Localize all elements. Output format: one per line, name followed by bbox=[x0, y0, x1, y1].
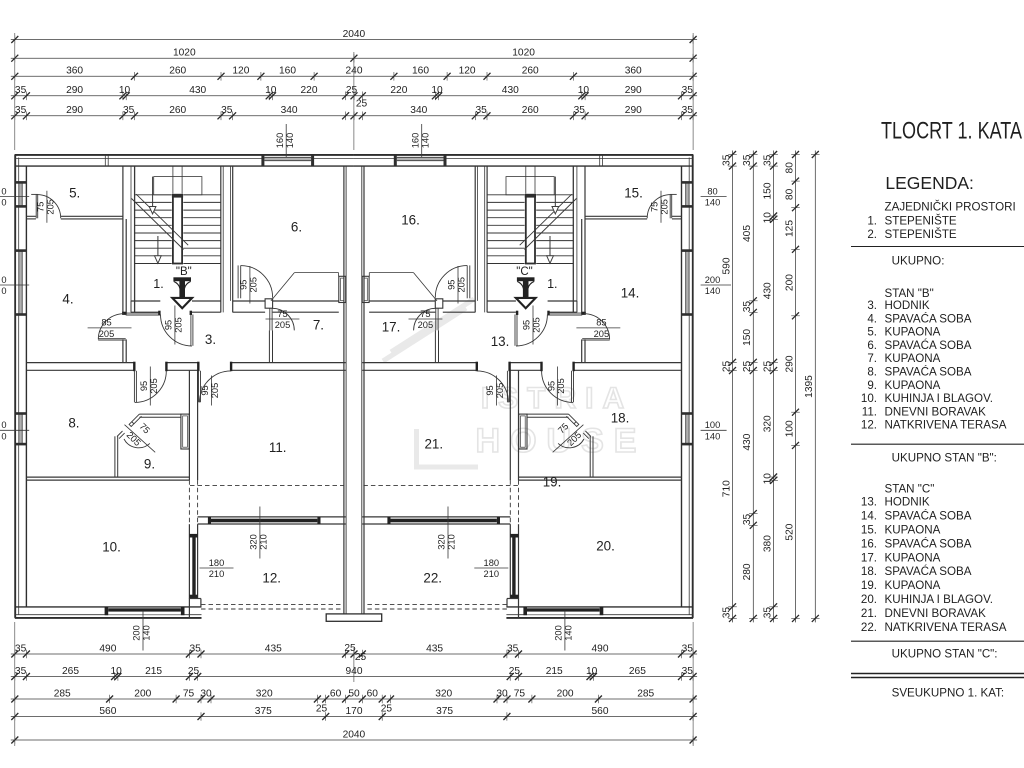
svg-text:KUPAONA: KUPAONA bbox=[885, 326, 941, 339]
svg-text:0: 0 bbox=[1, 432, 6, 442]
svg-text:35: 35 bbox=[742, 154, 753, 166]
door stair B (95/205) bbox=[158, 311, 160, 315]
svg-text:25: 25 bbox=[762, 361, 773, 373]
svg-text:30: 30 bbox=[496, 688, 508, 699]
svg-text:DNEVNI BORAVAK: DNEVNI BORAVAK bbox=[885, 405, 987, 418]
svg-text:35: 35 bbox=[682, 105, 694, 116]
door jambs corridor bbox=[133, 362, 135, 372]
svg-text:50: 50 bbox=[348, 688, 360, 699]
svg-text:2.: 2. bbox=[867, 228, 877, 241]
door D5 (75/205) room 5 bbox=[35, 194, 37, 218]
svg-text:320: 320 bbox=[435, 688, 452, 699]
svg-text:0: 0 bbox=[1, 286, 6, 296]
svg-text:25: 25 bbox=[721, 361, 732, 373]
svg-text:35: 35 bbox=[15, 643, 27, 654]
svg-text:35: 35 bbox=[721, 154, 732, 166]
svg-text:35: 35 bbox=[15, 666, 27, 677]
svg-text:35: 35 bbox=[476, 105, 488, 116]
svg-text:22.: 22. bbox=[423, 571, 442, 586]
svg-text:SPAVAĆA SOBA: SPAVAĆA SOBA bbox=[885, 565, 972, 578]
door D6 (95/205) room 6 bbox=[237, 265, 239, 298]
wall rooms6-7 south (Y440-475) bbox=[233, 300, 265, 302]
svg-text:140: 140 bbox=[420, 133, 430, 149]
svg-text:35: 35 bbox=[574, 105, 586, 116]
wall corridor south (Y625-650) bbox=[26, 362, 134, 364]
wall rooms8-9 south (Y970-980) bbox=[26, 476, 189, 478]
label window 200/140 right wall bbox=[701, 284, 731, 286]
svg-text:35: 35 bbox=[15, 85, 27, 96]
wall stairwell south (Y440-475) bbox=[131, 300, 160, 302]
label door stairC 95/205 bbox=[532, 306, 534, 345]
svg-text:10: 10 bbox=[762, 473, 773, 485]
svg-text:590: 590 bbox=[721, 257, 732, 274]
stair entry arrow B bbox=[173, 277, 191, 281]
label window 80/140 right wall bbox=[701, 196, 727, 198]
legend separator 3 bbox=[851, 640, 1024, 642]
svg-text:140: 140 bbox=[142, 625, 152, 641]
svg-text:210: 210 bbox=[209, 569, 225, 579]
label fragment left wall W3 bbox=[0, 429, 29, 431]
door D11 (95/205) room 11 bbox=[198, 371, 200, 403]
window 200/140 left W2 bbox=[16, 252, 25, 314]
label door D6 95/205 bbox=[249, 266, 251, 304]
svg-text:380: 380 bbox=[762, 535, 773, 552]
svg-text:220: 220 bbox=[390, 85, 407, 96]
svg-text:12.: 12. bbox=[262, 571, 281, 586]
svg-text:210: 210 bbox=[447, 534, 457, 550]
label door D17 75/205 bbox=[409, 318, 443, 320]
legend separator 2 bbox=[851, 443, 1024, 445]
svg-text:490: 490 bbox=[592, 643, 609, 654]
svg-text:KUPAONA: KUPAONA bbox=[885, 352, 941, 365]
svg-text:20.: 20. bbox=[861, 593, 877, 606]
svg-text:4.: 4. bbox=[62, 292, 73, 307]
label door D16 95/205 bbox=[457, 266, 459, 304]
svg-text:280: 280 bbox=[742, 563, 753, 580]
label fragment left wall W1 bbox=[0, 196, 29, 198]
svg-text:290: 290 bbox=[66, 105, 83, 116]
svg-text:220: 220 bbox=[301, 85, 318, 96]
svg-text:SPAVAĆA SOBA: SPAVAĆA SOBA bbox=[885, 510, 972, 523]
svg-text:35: 35 bbox=[221, 105, 233, 116]
niche diagonal room 6 bbox=[271, 273, 295, 301]
svg-text:260: 260 bbox=[169, 66, 186, 77]
svg-text:19.: 19. bbox=[861, 579, 877, 592]
svg-text:375: 375 bbox=[436, 706, 453, 717]
svg-text:SPAVAĆA SOBA: SPAVAĆA SOBA bbox=[885, 339, 972, 352]
dim chain T4 bbox=[11, 95, 697, 97]
svg-text:205: 205 bbox=[275, 320, 291, 330]
svg-text:10: 10 bbox=[762, 212, 773, 224]
dim chain T1 2040 bbox=[11, 39, 697, 41]
svg-text:10: 10 bbox=[578, 85, 590, 96]
dim chain B1 bbox=[11, 653, 697, 655]
label fragment left wall W2 bbox=[0, 284, 29, 286]
svg-text:35: 35 bbox=[682, 666, 694, 677]
svg-text:20.: 20. bbox=[596, 539, 615, 554]
label window 200/140 bottom-left bbox=[142, 611, 144, 651]
svg-text:160: 160 bbox=[410, 133, 420, 149]
svg-text:140: 140 bbox=[564, 625, 574, 641]
svg-text:NATKRIVENA TERASA: NATKRIVENA TERASA bbox=[885, 419, 1007, 432]
wire outer left wall bbox=[14, 155, 16, 618]
label door D9 75/205 rotated bbox=[125, 425, 156, 453]
svg-text:205: 205 bbox=[532, 317, 542, 333]
svg-text:75: 75 bbox=[650, 202, 660, 212]
svg-text:320: 320 bbox=[762, 415, 773, 432]
svg-text:0: 0 bbox=[1, 198, 6, 208]
wall room11 south (Y1080-1115) bbox=[198, 516, 346, 518]
svg-text:UKUPNO:: UKUPNO: bbox=[892, 255, 945, 268]
svg-text:180: 180 bbox=[209, 558, 225, 568]
svg-text:14.: 14. bbox=[621, 286, 640, 301]
svg-text:35: 35 bbox=[742, 514, 753, 526]
canopy dashed horizontal bbox=[190, 485, 346, 487]
dim chain T3 bbox=[11, 75, 697, 77]
svg-text:0: 0 bbox=[1, 275, 6, 285]
top wall tick bbox=[104, 155, 106, 166]
svg-text:KUHINJA I BLAGOV.: KUHINJA I BLAGOV. bbox=[885, 392, 993, 405]
svg-text:16.: 16. bbox=[861, 537, 877, 550]
svg-text:215: 215 bbox=[145, 666, 162, 677]
svg-text:5.: 5. bbox=[69, 186, 80, 201]
svg-text:1.: 1. bbox=[547, 277, 557, 291]
svg-text:205: 205 bbox=[99, 329, 115, 339]
svg-text:125: 125 bbox=[784, 220, 795, 237]
svg-text:340: 340 bbox=[410, 105, 427, 116]
svg-text:KUHINJA I BLAGOV.: KUHINJA I BLAGOV. bbox=[885, 593, 993, 606]
svg-text:140: 140 bbox=[705, 286, 721, 296]
label door D8 95/205 bbox=[149, 367, 151, 406]
shaft room 6 bbox=[339, 276, 346, 302]
svg-text:7.: 7. bbox=[867, 352, 877, 365]
dim chain T2 1020/1020 bbox=[11, 57, 697, 59]
terrace bottom dashed bbox=[201, 604, 344, 606]
dim chain R5 1395 bbox=[814, 151, 816, 623]
svg-text:200: 200 bbox=[134, 688, 151, 699]
svg-text:120: 120 bbox=[232, 66, 249, 77]
svg-text:35: 35 bbox=[742, 301, 753, 313]
stairs treads bbox=[135, 194, 221, 196]
svg-text:85: 85 bbox=[596, 318, 606, 328]
svg-text:7.: 7. bbox=[313, 318, 324, 333]
svg-text:ZAJEDNIČKI PROSTORI: ZAJEDNIČKI PROSTORI bbox=[885, 201, 1016, 214]
label window 160/140 top-right bbox=[421, 124, 423, 157]
label door D5 75/205 bbox=[46, 191, 48, 223]
svg-text:1395: 1395 bbox=[804, 375, 815, 398]
stairs break line bbox=[132, 199, 184, 250]
svg-text:10: 10 bbox=[586, 666, 598, 677]
svg-text:430: 430 bbox=[189, 85, 206, 96]
svg-text:60: 60 bbox=[330, 688, 342, 699]
svg-text:205: 205 bbox=[418, 320, 434, 330]
svg-text:75: 75 bbox=[514, 688, 526, 699]
svg-text:SPAVAĆA SOBA: SPAVAĆA SOBA bbox=[885, 366, 972, 379]
svg-text:205: 205 bbox=[457, 277, 467, 293]
svg-text:260: 260 bbox=[522, 105, 539, 116]
svg-text:35: 35 bbox=[682, 85, 694, 96]
svg-text:95: 95 bbox=[485, 385, 495, 395]
label door D4 85/205 bbox=[88, 327, 132, 329]
dim chain R4 bbox=[795, 151, 797, 623]
witness lines bbox=[14, 33, 16, 150]
dim chain R1 bbox=[732, 151, 734, 623]
stairs flight divider bbox=[172, 166, 174, 195]
svg-text:160: 160 bbox=[275, 133, 285, 149]
svg-text:95: 95 bbox=[239, 280, 249, 290]
svg-text:21.: 21. bbox=[861, 607, 877, 620]
svg-text:11.: 11. bbox=[862, 405, 877, 418]
label door D18 95/205 bbox=[557, 367, 559, 406]
svg-text:1020: 1020 bbox=[512, 48, 535, 59]
svg-text:430: 430 bbox=[742, 433, 753, 450]
svg-text:435: 435 bbox=[265, 643, 282, 654]
wire bottom wall (left section) bbox=[15, 617, 202, 619]
svg-text:100: 100 bbox=[784, 420, 795, 437]
svg-text:200: 200 bbox=[705, 275, 721, 285]
svg-text:TLOCRT 1. KATA: TLOCRT 1. KATA bbox=[881, 118, 1022, 145]
footing party wall bbox=[326, 614, 382, 621]
svg-text:"B": "B" bbox=[176, 266, 192, 278]
label window 180/210 right bbox=[474, 567, 508, 569]
window 100/140 left W3 bbox=[16, 414, 25, 443]
party wall center bbox=[343, 166, 345, 614]
svg-text:95: 95 bbox=[447, 280, 457, 290]
wall room9 north bbox=[139, 413, 180, 415]
svg-text:UKUPNO STAN "B":: UKUPNO STAN "B": bbox=[892, 452, 997, 465]
svg-text:15.: 15. bbox=[861, 524, 877, 537]
svg-text:290: 290 bbox=[625, 85, 642, 96]
svg-text:10: 10 bbox=[111, 666, 123, 677]
svg-text:1.: 1. bbox=[867, 215, 877, 228]
label door D19 75/205 rotated bbox=[553, 425, 584, 453]
svg-text:35: 35 bbox=[682, 643, 694, 654]
svg-text:2040: 2040 bbox=[343, 29, 366, 40]
door D8 (95/205) room 8 bbox=[133, 371, 135, 403]
svg-text:160: 160 bbox=[279, 66, 296, 77]
svg-text:320: 320 bbox=[437, 534, 447, 550]
svg-text:STEPENIŠTE: STEPENIŠTE bbox=[885, 215, 957, 228]
svg-text:5.: 5. bbox=[867, 326, 877, 339]
canopy dashed verticals bbox=[188, 480, 190, 524]
dim chain B3 bbox=[11, 698, 697, 700]
svg-text:60: 60 bbox=[367, 688, 379, 699]
door D7 (75/205) room 7 bbox=[269, 308, 271, 330]
svg-text:200: 200 bbox=[554, 625, 564, 641]
window 180/210 bbox=[192, 537, 195, 596]
svg-text:SVEUKUPNO 1. KAT:: SVEUKUPNO 1. KAT: bbox=[892, 687, 1005, 700]
wall rooms5-4 east (X325-335) bbox=[122, 166, 124, 314]
svg-text:265: 265 bbox=[62, 666, 79, 677]
svg-text:150: 150 bbox=[762, 182, 773, 199]
svg-text:KUPAONA: KUPAONA bbox=[885, 379, 941, 392]
watermark house logo bbox=[383, 299, 478, 469]
svg-text:2040: 2040 bbox=[343, 729, 366, 740]
svg-text:14.: 14. bbox=[861, 510, 877, 523]
svg-text:290: 290 bbox=[784, 355, 795, 372]
wall rooms8-11 divider (X525-550) bbox=[188, 371, 190, 481]
dim chain B5 2040 bbox=[11, 739, 697, 741]
niche line room 6 bbox=[294, 272, 338, 274]
svg-text:560: 560 bbox=[592, 706, 609, 717]
svg-text:HODNIK: HODNIK bbox=[885, 496, 930, 509]
svg-text:140: 140 bbox=[705, 198, 721, 208]
label window 200/140 bottom-right bbox=[564, 611, 566, 651]
svg-text:19.: 19. bbox=[543, 475, 562, 490]
svg-text:150: 150 bbox=[742, 329, 753, 346]
svg-text:360: 360 bbox=[66, 66, 83, 77]
shaft rooms 8-9 bbox=[181, 414, 189, 449]
svg-text:35: 35 bbox=[15, 105, 27, 116]
svg-text:215: 215 bbox=[546, 666, 563, 677]
svg-text:1.: 1. bbox=[153, 277, 163, 291]
svg-text:3.: 3. bbox=[867, 299, 877, 312]
svg-text:SPAVAĆA SOBA: SPAVAĆA SOBA bbox=[885, 312, 972, 325]
svg-text:25: 25 bbox=[346, 85, 358, 96]
svg-text:8.: 8. bbox=[68, 416, 79, 431]
svg-text:200: 200 bbox=[784, 274, 795, 291]
svg-text:35: 35 bbox=[190, 643, 202, 654]
svg-text:405: 405 bbox=[742, 225, 753, 242]
label window 320/210 right bbox=[447, 507, 449, 559]
svg-text:160: 160 bbox=[412, 66, 429, 77]
dim chain R2 bbox=[752, 151, 754, 623]
svg-text:11.: 11. bbox=[269, 440, 287, 455]
door D9 (75/205) arc bbox=[124, 439, 150, 448]
dim chain B2 bbox=[11, 676, 697, 678]
svg-text:210: 210 bbox=[484, 569, 500, 579]
svg-text:560: 560 bbox=[99, 706, 116, 717]
svg-text:80: 80 bbox=[784, 162, 795, 174]
label door D21 95/205 bbox=[496, 376, 498, 406]
wall corridor north-west piece bbox=[126, 312, 161, 314]
svg-text:205: 205 bbox=[249, 277, 259, 293]
svg-text:18.: 18. bbox=[861, 565, 877, 578]
svg-text:30: 30 bbox=[200, 688, 212, 699]
label door D11 95/205 bbox=[210, 376, 212, 406]
svg-text:205: 205 bbox=[46, 199, 56, 215]
label window 320/210 left bbox=[259, 507, 261, 559]
svg-text:285: 285 bbox=[637, 688, 654, 699]
svg-text:KUPAONA: KUPAONA bbox=[885, 551, 941, 564]
svg-text:KUPAONA: KUPAONA bbox=[885, 579, 941, 592]
svg-text:95: 95 bbox=[546, 381, 556, 391]
svg-text:435: 435 bbox=[426, 643, 443, 654]
svg-text:205: 205 bbox=[210, 383, 220, 399]
svg-text:10: 10 bbox=[265, 85, 277, 96]
svg-text:35: 35 bbox=[762, 607, 773, 619]
svg-text:290: 290 bbox=[625, 105, 642, 116]
svg-text:265: 265 bbox=[629, 666, 646, 677]
svg-text:LEGENDA:: LEGENDA: bbox=[885, 173, 974, 193]
svg-text:DNEVNI BORAVAK: DNEVNI BORAVAK bbox=[885, 607, 987, 620]
jamb rect rooms6-7 bbox=[265, 299, 273, 308]
wall terrace west (X525-550) bbox=[188, 524, 190, 599]
window 80/140 left W1 bbox=[16, 183, 25, 205]
legend separator 1 bbox=[851, 246, 1024, 248]
svg-text:3.: 3. bbox=[205, 332, 216, 347]
svg-text:710: 710 bbox=[721, 480, 732, 497]
svg-text:6.: 6. bbox=[291, 220, 302, 235]
wall rooms8-9 partition (X300-310) bbox=[114, 436, 116, 477]
svg-text:4.: 4. bbox=[867, 312, 877, 325]
window 320/210 bbox=[211, 519, 317, 523]
svg-text:25: 25 bbox=[355, 652, 367, 663]
svg-text:NATKRIVENA TERASA: NATKRIVENA TERASA bbox=[885, 621, 1007, 634]
svg-text:95: 95 bbox=[200, 385, 210, 395]
svg-text:520: 520 bbox=[784, 523, 795, 540]
svg-text:17.: 17. bbox=[861, 551, 877, 564]
svg-text:205: 205 bbox=[495, 383, 505, 399]
svg-text:430: 430 bbox=[762, 282, 773, 299]
wall room5 bottom (Y185-195) bbox=[61, 215, 124, 217]
window 160/140 top (room 6) bbox=[264, 156, 311, 165]
svg-text:170: 170 bbox=[346, 706, 363, 717]
svg-text:200: 200 bbox=[557, 688, 574, 699]
stairs arrow upper bbox=[152, 177, 154, 207]
svg-text:140: 140 bbox=[705, 432, 721, 442]
svg-text:0: 0 bbox=[1, 186, 6, 196]
svg-text:25: 25 bbox=[356, 99, 368, 110]
svg-text:375: 375 bbox=[255, 706, 272, 717]
label window 180/210 left bbox=[200, 567, 234, 569]
svg-text:1020: 1020 bbox=[173, 48, 196, 59]
svg-text:290: 290 bbox=[66, 85, 83, 96]
svg-text:100: 100 bbox=[705, 420, 721, 430]
window 200/140 bottom bbox=[106, 608, 183, 615]
svg-text:75: 75 bbox=[183, 688, 195, 699]
svg-text:10.: 10. bbox=[102, 540, 121, 555]
stairs center rail bbox=[172, 194, 184, 265]
svg-text:205: 205 bbox=[556, 378, 566, 394]
svg-text:13.: 13. bbox=[491, 334, 510, 349]
svg-text:35: 35 bbox=[762, 154, 773, 166]
svg-text:320: 320 bbox=[256, 688, 273, 699]
svg-text:95: 95 bbox=[139, 381, 149, 391]
label window 160/140 top-left bbox=[285, 124, 287, 157]
svg-text:SPAVAĆA SOBA: SPAVAĆA SOBA bbox=[885, 537, 972, 550]
svg-text:75: 75 bbox=[420, 309, 430, 319]
wall stairwell east (X620-655) bbox=[220, 166, 222, 312]
svg-text:205: 205 bbox=[660, 199, 670, 215]
stairs landing rect bbox=[154, 177, 202, 195]
svg-text:85: 85 bbox=[101, 318, 111, 328]
svg-text:80: 80 bbox=[707, 186, 717, 196]
svg-text:25: 25 bbox=[742, 361, 753, 373]
wall corner terrace-bottom bbox=[188, 599, 190, 618]
svg-text:9.: 9. bbox=[867, 379, 877, 392]
svg-text:STAN "C": STAN "C" bbox=[885, 483, 935, 496]
svg-text:8.: 8. bbox=[867, 366, 877, 379]
svg-text:80: 80 bbox=[784, 188, 795, 200]
wire top wall (left half) bbox=[15, 154, 354, 156]
svg-text:140: 140 bbox=[285, 133, 295, 149]
label door stairB 95/205 bbox=[174, 306, 176, 345]
label window 100/140 right wall bbox=[701, 429, 727, 431]
svg-text:260: 260 bbox=[169, 105, 186, 116]
label door D15 75/205 bbox=[660, 191, 662, 223]
svg-text:95: 95 bbox=[164, 320, 174, 330]
dim chain R3 bbox=[773, 151, 775, 623]
svg-text:13.: 13. bbox=[861, 496, 877, 509]
svg-text:18.: 18. bbox=[611, 411, 630, 426]
svg-text:320: 320 bbox=[249, 534, 259, 550]
door D4 (85/205) room 4 bbox=[122, 312, 126, 315]
svg-text:"C": "C" bbox=[516, 266, 532, 278]
svg-text:UKUPNO STAN "C":: UKUPNO STAN "C": bbox=[892, 648, 998, 661]
svg-text:12.: 12. bbox=[861, 419, 877, 432]
svg-text:75: 75 bbox=[36, 202, 46, 212]
